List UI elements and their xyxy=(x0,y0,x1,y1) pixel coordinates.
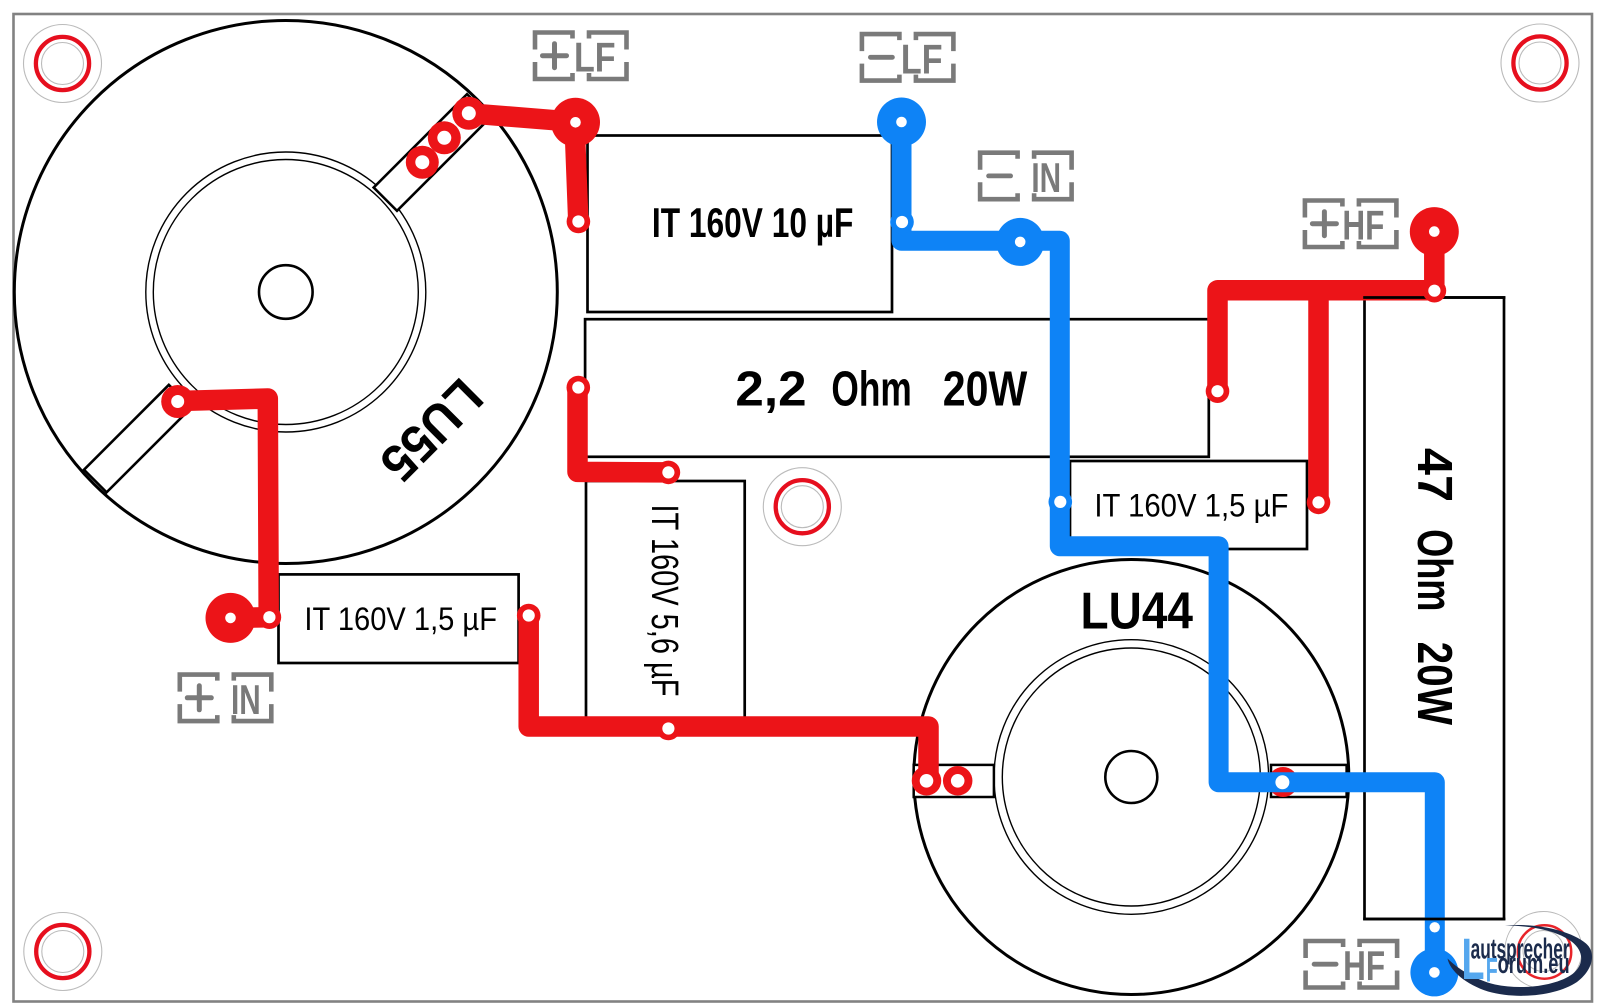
svg-text:LU44: LU44 xyxy=(1081,582,1194,640)
svg-text:IT 160V 10 µF: IT 160V 10 µF xyxy=(652,199,854,246)
svg-text:IT 160V 5,6 µF: IT 160V 5,6 µF xyxy=(643,505,685,697)
svg-text:20W: 20W xyxy=(943,362,1028,416)
svg-text:IN: IN xyxy=(1031,154,1061,201)
svg-text:F: F xyxy=(1486,952,1498,990)
svg-text:LF: LF xyxy=(901,35,943,82)
svg-text:IN: IN xyxy=(231,676,261,723)
svg-text:LF: LF xyxy=(574,34,616,81)
svg-text:IT 160V 1,5 µF: IT 160V 1,5 µF xyxy=(1094,488,1288,524)
svg-text:Ohm: Ohm xyxy=(1407,529,1461,611)
svg-text:2,2: 2,2 xyxy=(735,362,806,416)
svg-text:HF: HF xyxy=(1343,942,1385,989)
svg-text:Ohm: Ohm xyxy=(831,362,911,416)
svg-text:20W: 20W xyxy=(1407,642,1461,726)
svg-text:HF: HF xyxy=(1342,202,1384,249)
svg-text:IT 160V 1,5 µF: IT 160V 1,5 µF xyxy=(304,601,497,637)
svg-text:47: 47 xyxy=(1407,448,1461,502)
svg-text:orum.eu: orum.eu xyxy=(1498,948,1570,980)
